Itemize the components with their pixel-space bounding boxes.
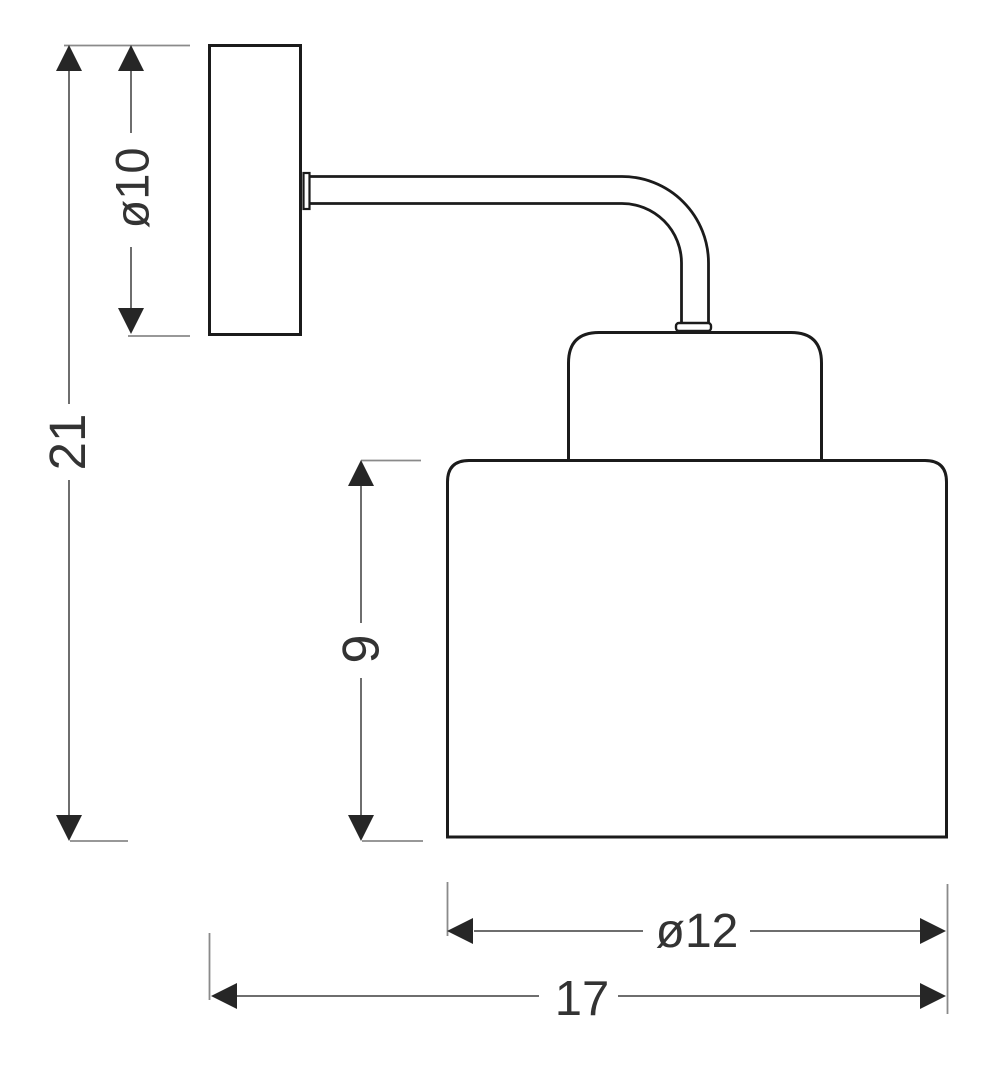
arm tube inner line [310,204,682,324]
dimension 9 line [360,486,362,817]
lamp holder [569,333,822,460]
dimension 9 arrow down [348,815,374,841]
collar ferrule [676,323,711,331]
dimension 21 arrow down [56,815,82,841]
dimension ø12 line [474,930,920,932]
extension line bottom of plate (ø10) [128,335,190,337]
extension line top of shade (9) [361,460,421,462]
dimension ø12 arrow left [447,918,473,944]
wall mount plate [210,46,301,335]
extension line 17 left (wall line) [209,933,211,1000]
dimension 21 line [68,70,70,817]
arm tube outer line [310,177,709,324]
svg-text:ø12: ø12 [656,905,739,958]
dimension 17 arrow right [920,983,946,1009]
extension line bottom of shade (9) [362,840,423,842]
dimension 17 arrow left [211,983,237,1009]
lampshade [448,461,947,838]
dimension ø10 arrow up [118,45,144,71]
svg-text:9: 9 [333,635,391,664]
dimension 17 line [236,995,920,997]
extension line shade right (ø12 and 17) [947,884,949,1014]
dimension 21 arrow up [56,45,82,71]
svg-text:ø10: ø10 [106,148,159,229]
svg-text:21: 21 [39,414,96,471]
dimension ø12 arrow right [920,918,946,944]
dimension 9 arrow up [348,460,374,486]
extension line shade left (ø12) [447,882,449,936]
dimension ø10 line [130,70,132,310]
dimension ø10 arrow down [118,308,144,334]
extension line bottom left (21) [70,840,128,842]
arm flange at plate [304,173,310,209]
extension line top (for 21 and ø10) [64,45,190,47]
svg-text:17: 17 [555,972,610,1026]
